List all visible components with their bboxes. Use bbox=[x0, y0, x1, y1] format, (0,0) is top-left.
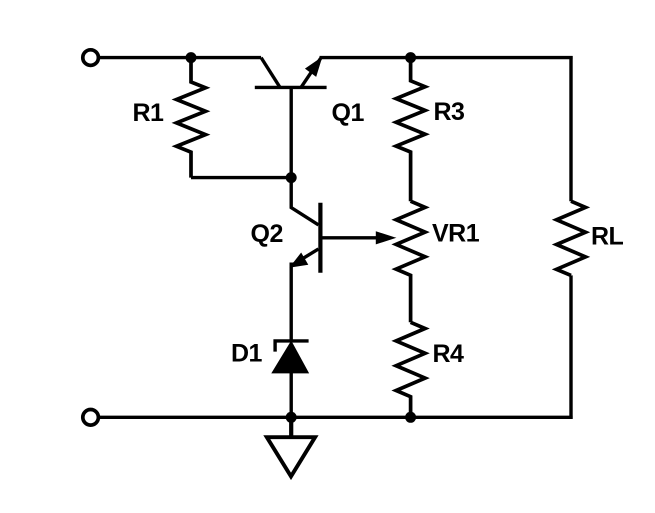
node: output rail / R3 junction bbox=[405, 52, 416, 63]
node: input / R1 junction bbox=[186, 52, 197, 63]
wire: RL to bottom rail bbox=[569, 275, 572, 419]
ground bbox=[267, 417, 315, 476]
svg-text:Q2: Q2 bbox=[251, 220, 283, 248]
wire: Q1 emitter to output rail (top) bbox=[320, 56, 573, 59]
transistor Q1 bbox=[255, 58, 327, 178]
wire: Q2 emitter to D1 cathode bbox=[290, 263, 293, 341]
wire: bottom rail bbox=[98, 416, 572, 419]
svg-text:D1: D1 bbox=[231, 339, 263, 367]
wire: Q2 base to VR1 wiper (arrow) bbox=[320, 232, 394, 244]
zener diode D1 bbox=[273, 341, 309, 373]
svg-text:Q1: Q1 bbox=[332, 99, 365, 127]
resistor R1 bbox=[177, 58, 206, 178]
wire: top rail to RL bbox=[569, 56, 572, 201]
svg-text:R3: R3 bbox=[434, 98, 465, 126]
transistor Q2 bbox=[291, 178, 321, 273]
resistor R4 bbox=[396, 322, 425, 417]
svg-text:R1: R1 bbox=[133, 99, 165, 127]
wire: D1 anode to bottom rail bbox=[290, 373, 293, 418]
output terminal (bottom-left) bbox=[83, 410, 99, 426]
svg-text:R4: R4 bbox=[433, 340, 465, 368]
node: D1 / ground junction bbox=[286, 412, 297, 423]
wire: input terminal to Q1 collector corner bbox=[98, 56, 261, 59]
node: R1 / Q1 base / Q2 collector junction bbox=[286, 172, 297, 183]
wire: R1 bottom to Q1 base node bbox=[191, 176, 291, 179]
resistor R3 bbox=[396, 58, 425, 202]
svg-text:VR1: VR1 bbox=[432, 220, 480, 248]
load resistor RL bbox=[557, 201, 586, 275]
svg-text:RL: RL bbox=[591, 222, 624, 250]
node: R4 / bottom rail junction bbox=[405, 412, 416, 423]
input terminal (top-left) bbox=[83, 50, 99, 66]
potentiometer VR1 bbox=[396, 201, 425, 322]
